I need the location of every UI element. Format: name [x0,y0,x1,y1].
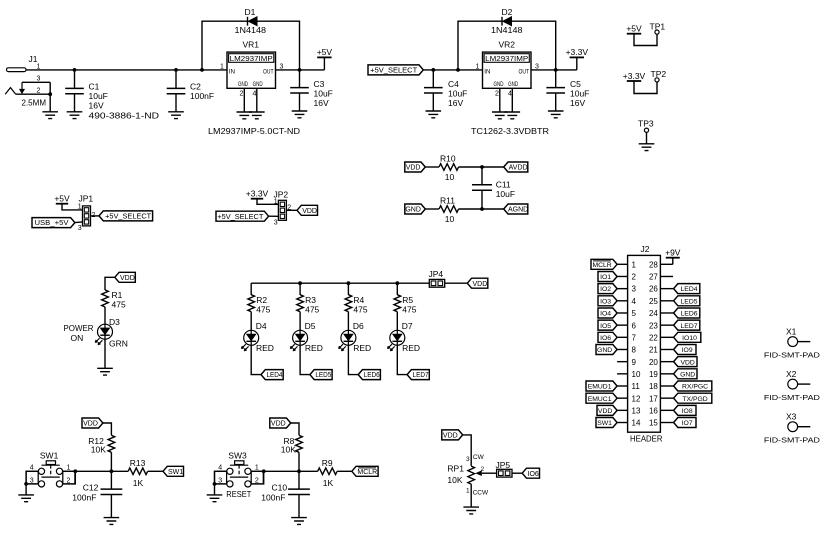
svg-text:IN: IN [229,69,235,76]
svg-text:27: 27 [649,273,658,282]
resistor R5 [394,295,417,315]
svg-text:20: 20 [649,358,658,367]
LED D5 [290,321,323,353]
svg-text:CW: CW [473,454,485,461]
fiducial X1 [764,327,821,360]
svg-text:475: 475 [305,305,319,315]
wire [251,282,429,284]
svg-text:23: 23 [649,321,658,330]
net +5V_SELECT [368,65,423,75]
svg-text:10uF: 10uF [496,189,515,199]
svg-text:RED: RED [402,343,420,353]
ground [639,144,655,151]
svg-text:D4: D4 [256,321,267,331]
svg-text:R1: R1 [112,290,123,300]
svg-text:10K: 10K [447,475,462,485]
wire [26,471,38,495]
wire [396,283,398,295]
svg-text:TP3: TP3 [638,119,654,129]
net LED4 [674,284,700,294]
net IO2 [598,284,617,294]
svg-text:X3: X3 [786,412,797,422]
fiducial X3 [764,412,821,445]
svg-text:IO6: IO6 [600,335,611,342]
wire [337,470,352,472]
wire [257,21,299,70]
svg-text:100nF: 100nF [72,493,96,503]
svg-text:GND: GND [680,371,695,378]
testpoint TP1 [626,22,665,46]
svg-text:VDD: VDD [680,359,694,366]
svg-text:VR1: VR1 [243,40,260,50]
svg-text:MCLR: MCLR [592,262,611,269]
svg-text:+5V_SELECT: +5V_SELECT [105,212,151,221]
pin 10 [617,370,641,379]
svg-text:CCW: CCW [473,490,489,497]
ground [249,112,265,119]
pin 19 [649,370,674,379]
svg-text:C3: C3 [314,79,325,89]
pin 22 [649,333,674,342]
net EMUC1 [586,393,617,403]
svg-text:RX/PGC: RX/PGC [682,384,708,391]
svg-text:IO2: IO2 [600,286,611,293]
net IO4 [598,308,617,318]
svg-text:R5: R5 [402,295,413,305]
svg-text:+5V_SELECT: +5V_SELECT [217,212,263,221]
svg-text:17: 17 [649,394,658,403]
svg-text:1: 1 [255,465,259,472]
svg-text:R11: R11 [440,196,455,206]
ground [67,112,83,119]
svg-text:24: 24 [649,309,658,318]
svg-text:100nF: 100nF [261,493,285,503]
net RX/PGC [674,381,712,391]
svg-text:TP2: TP2 [651,69,667,79]
wire [251,345,261,374]
junction [48,92,52,96]
svg-text:18: 18 [649,382,658,391]
svg-text:SW3: SW3 [228,450,247,460]
junction [431,68,435,72]
wire [347,283,349,295]
svg-text:VR2: VR2 [499,40,516,50]
svg-text:D6: D6 [353,321,364,331]
wire [110,452,112,471]
svg-text:11: 11 [632,382,641,391]
svg-text:IO8: IO8 [682,408,693,415]
svg-text:VDD: VDD [473,281,488,288]
net USB_+5V [32,218,83,228]
testpoint TP3 [638,119,654,144]
svg-text:22: 22 [649,333,658,342]
net VDD [467,278,488,288]
pin 14 [617,419,641,428]
svg-text:3: 3 [78,225,82,232]
svg-text:IO7: IO7 [682,420,693,427]
ground [97,368,113,375]
svg-text:RESET: RESET [226,489,251,499]
svg-text:GND: GND [238,81,248,88]
svg-text:1K: 1K [323,478,334,488]
junction [73,68,77,72]
junction [480,207,484,211]
resistor R12 [88,435,114,454]
svg-text:VDD: VDD [443,433,458,440]
svg-text:FID-SMT-PAD: FID-SMT-PAD [764,351,821,360]
svg-text:LED7: LED7 [413,372,429,379]
net IO3 [598,296,617,306]
junction [200,68,204,72]
resistor R1 [102,290,126,310]
svg-text:C2: C2 [190,82,201,92]
svg-text:IO5: IO5 [600,323,611,330]
pin 6 [617,321,636,330]
LED D6 [339,321,372,353]
svg-text:26: 26 [649,285,658,294]
svg-text:VDD: VDD [271,421,286,428]
pin 17 [649,394,674,403]
wire [300,345,310,374]
junction [347,281,351,285]
svg-text:8: 8 [632,346,637,355]
potentiometer RP1 [447,454,496,496]
junction [174,68,178,72]
svg-text:+3.3V: +3.3V [623,71,646,81]
svg-text:VDD: VDD [120,275,135,282]
svg-text:4: 4 [508,90,512,97]
svg-text:1: 1 [632,260,637,269]
svg-text:TX/PGD: TX/PGD [682,396,707,403]
svg-text:10uF: 10uF [570,89,589,99]
wire [91,215,100,217]
svg-text:+5V: +5V [626,24,642,34]
ground [291,518,307,525]
wire [104,339,106,368]
net LED7 [674,320,700,330]
net AVDD [504,162,528,172]
pin 23 [649,321,674,330]
diode D2 [491,7,523,35]
svg-text:3: 3 [37,76,41,83]
svg-text:D7: D7 [402,321,413,331]
svg-text:1N4148: 1N4148 [491,25,523,35]
wire [286,209,297,211]
junction [480,165,484,169]
svg-text:21: 21 [649,346,658,355]
svg-text:GND: GND [508,81,518,88]
net GND [674,369,697,379]
power +5V [317,47,333,70]
svg-text:GRN: GRN [109,338,128,348]
wire [104,307,106,324]
pin 26 [649,285,674,294]
svg-text:1: 1 [67,465,71,472]
svg-text:LM2937IMP-5.0CT-ND: LM2937IMP-5.0CT-ND [208,126,300,136]
svg-text:16V: 16V [448,98,463,108]
net IO6 [598,332,617,342]
pin 9 [617,358,636,367]
svg-text:ON: ON [71,333,84,343]
ground [548,111,564,118]
net IO10 [674,332,701,342]
net EMUD1 [586,381,617,391]
jumper JP5 [496,460,513,477]
wire [250,283,252,295]
net +5V_SELECT [99,211,153,221]
net IO8 [674,405,696,415]
svg-text:C1: C1 [89,82,100,92]
ground [237,112,253,119]
svg-text:IO10: IO10 [682,335,697,342]
svg-text:3: 3 [274,219,278,226]
svg-text:19: 19 [649,370,658,379]
capacitor C4 [424,70,467,111]
svg-text:R13: R13 [130,458,146,468]
svg-text:C5: C5 [570,79,581,89]
wire [397,345,407,374]
net LED4 [261,370,283,380]
pin 25 [649,297,674,306]
wire [458,21,502,70]
wire [250,312,252,331]
svg-text:R9: R9 [322,458,333,468]
wire [105,277,115,290]
svg-text:+5V: +5V [54,194,70,204]
svg-text:2: 2 [240,90,244,97]
ground [292,111,308,118]
junction [297,469,301,473]
net IO7 [674,418,696,428]
resistor R13 [128,458,148,488]
svg-text:X2: X2 [786,369,797,379]
svg-text:12: 12 [632,394,641,403]
svg-text:GND: GND [405,207,421,214]
svg-text:16: 16 [649,406,658,415]
svg-text:J2: J2 [641,244,650,254]
net VDD [442,430,463,440]
resistor R9 [318,458,338,488]
svg-text:GND: GND [494,81,504,88]
power +3.3V [246,189,279,205]
svg-text:1: 1 [220,63,224,70]
pin 20 [649,358,674,367]
svg-text:1N4148: 1N4148 [235,25,267,35]
LED D7 [388,321,421,353]
junction [110,469,114,473]
resistor R4 [345,295,368,315]
svg-text:1: 1 [476,63,480,70]
net +5V_SELECT [216,211,278,221]
svg-text:D3: D3 [109,317,120,327]
svg-text:16V: 16V [89,101,104,111]
svg-text:+3.3V: +3.3V [566,47,589,57]
svg-text:16V: 16V [314,98,329,108]
pin 5 [617,309,636,318]
pin 18 [649,382,674,391]
svg-text:100nF: 100nF [190,91,214,101]
ground [207,495,223,502]
resistor R8 [281,435,303,454]
net LED5 [674,296,700,306]
pin 15 [649,419,674,428]
svg-text:5: 5 [632,309,637,318]
wire [299,312,301,331]
svg-text:4: 4 [632,297,637,306]
jumper JP1 [78,194,96,232]
svg-text:EMUD1: EMUD1 [588,384,612,391]
svg-text:7: 7 [632,333,637,342]
jumper JP2 [274,190,292,227]
net VDD [674,357,697,367]
wire [63,471,76,484]
net GND [405,204,426,214]
junction [395,281,399,285]
svg-text:R4: R4 [353,295,364,305]
net IO6 [522,468,539,478]
junction [213,482,217,486]
svg-text:OUT: OUT [519,69,530,76]
connector J1 [5,54,51,107]
net VDD [270,418,291,428]
svg-text:GND: GND [597,347,612,354]
svg-text:VDD: VDD [83,421,98,428]
net TX/PGD [674,393,712,403]
svg-text:1: 1 [466,487,470,494]
power +9V [665,248,681,265]
net LED7 [407,370,429,380]
svg-text:2: 2 [495,90,499,97]
svg-text:R10: R10 [440,154,456,164]
svg-text:VDD: VDD [406,165,421,172]
ground [463,507,479,514]
svg-text:HEADER: HEADER [630,434,663,444]
svg-text:10K: 10K [91,444,106,454]
capacitor C3 [290,70,333,111]
header J2 [628,244,663,444]
resistor R10 [425,154,504,183]
svg-text:D1: D1 [245,7,256,17]
ground [505,112,521,119]
pin 7 [617,333,636,342]
pin 16 [649,406,674,415]
svg-text:475: 475 [256,305,270,315]
wire [148,470,163,472]
svg-text:X1: X1 [786,327,797,337]
wire [264,470,318,472]
svg-text:OUT: OUT [263,69,274,76]
junction [554,68,558,72]
fiducial X2 [764,369,821,402]
svg-text:SW1: SW1 [597,420,612,427]
wire [512,21,556,70]
svg-text:AVDD: AVDD [509,165,528,172]
svg-text:IO9: IO9 [682,347,693,354]
pin 12 [617,394,641,403]
svg-text:RED: RED [305,343,323,353]
svg-text:+9V: +9V [665,248,681,258]
testpoint TP2 [623,69,667,94]
svg-text:10: 10 [445,172,455,182]
svg-text:2.5MM: 2.5MM [22,97,47,107]
capacitor C11 [472,167,515,209]
power +5V [54,194,82,210]
svg-text:3: 3 [632,285,637,294]
svg-text:+3.3V: +3.3V [246,189,269,199]
pin 1 [617,260,636,269]
svg-text:475: 475 [402,305,416,315]
svg-text:10: 10 [632,370,641,379]
wire [26,69,227,71]
pin 27 [649,273,673,282]
svg-text:JP1: JP1 [79,194,94,204]
svg-text:RP1: RP1 [447,464,464,474]
net VDD [597,405,617,415]
svg-text:C12: C12 [83,483,99,493]
regulator VR1 [208,40,300,136]
svg-text:TC1262-3.3VDBTR: TC1262-3.3VDBTR [471,126,549,136]
svg-text:C10: C10 [272,483,288,493]
svg-text:LM2937IMP: LM2937IMP [230,54,273,63]
pin 13 [617,406,641,415]
svg-text:4: 4 [30,465,34,472]
wire [75,470,128,472]
svg-text:10: 10 [445,214,455,224]
jumper JP4 [429,269,445,287]
wire [531,69,577,71]
svg-text:LED6: LED6 [364,372,380,379]
svg-text:+5V_SELECT: +5V_SELECT [370,66,417,75]
junction [24,482,28,486]
svg-text:FID-SMT-PAD: FID-SMT-PAD [764,436,821,445]
svg-text:GND: GND [253,81,263,88]
svg-text:2: 2 [632,273,637,282]
pin 11 [617,382,640,391]
capacitor C5 [546,70,589,111]
svg-text:AGND: AGND [508,207,528,214]
capacitor C10 [261,471,310,517]
net GND [596,344,617,354]
svg-text:6: 6 [632,321,637,330]
svg-text:LED5: LED5 [681,298,698,305]
wire [445,282,468,284]
svg-text:9: 9 [632,358,637,367]
ground [104,518,120,525]
ground [492,112,508,119]
svg-text:FID-SMT-PAD: FID-SMT-PAD [764,393,821,402]
capacitor C2 [167,70,214,112]
pin 4 [617,297,636,306]
power +3.3V [566,47,589,70]
ground [18,495,34,502]
capacitor C1 [65,70,159,120]
regulator VR2 [471,40,549,136]
svg-text:10K: 10K [281,444,296,454]
net MCLR [352,466,378,476]
pin 8 [617,346,636,355]
resistor R3 [297,295,320,315]
net LED5 [310,370,332,380]
LED D4 [241,321,274,353]
svg-text:10uF: 10uF [314,89,333,99]
svg-text:10uF: 10uF [89,91,108,101]
svg-text:4: 4 [253,90,257,97]
capacitor C12 [72,471,122,517]
svg-text:15: 15 [649,419,658,428]
svg-text:IO1: IO1 [600,274,611,281]
svg-text:R2: R2 [256,295,267,305]
svg-text:SW1: SW1 [40,450,59,460]
